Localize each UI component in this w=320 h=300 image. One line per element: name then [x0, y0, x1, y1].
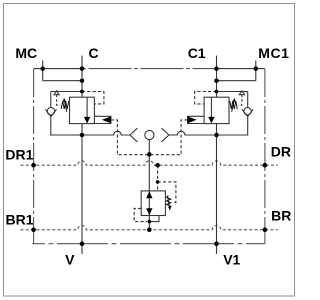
RV1 outlet step — [149, 216, 159, 222]
svg-text:DR: DR — [271, 143, 291, 159]
CB2 vent triangle — [239, 91, 244, 95]
shuttle valve SH1 ball — [145, 130, 154, 139]
wire: right drain gallery vertical dash-dot — [264, 69, 266, 244]
wire: left drain gallery vertical dash-dot — [33, 69, 35, 244]
RV1 down arrow — [146, 208, 152, 215]
CB1 vent dashed line — [57, 95, 61, 106]
junction BR port node — [263, 228, 268, 233]
junction C / top line — [80, 66, 85, 71]
junction C1 / top line — [214, 66, 219, 71]
wire: top line MC1 to C1 — [217, 68, 265, 70]
CB2 pilot piston arrow — [188, 116, 197, 123]
wire: drain line DR1-DR dashed with crossover humps — [20, 161, 277, 165]
RV1 pilot dashed branch to spring — [158, 182, 176, 202]
junction BR1 port node — [31, 228, 36, 233]
junction RV1 outlet — [148, 220, 152, 224]
wire: MC port stub — [42, 61, 44, 81]
CB2 spring — [230, 101, 238, 109]
CB1 pilot piston box — [94, 116, 111, 123]
shuttle valve SH1 left seat — [130, 128, 137, 142]
check valve CV2 ball — [244, 108, 251, 115]
wire: C1 node to check valve CV2 top — [217, 91, 248, 93]
junction V1 port node — [214, 241, 219, 246]
counterbalance valve CB1 body — [70, 97, 95, 123]
check valve CV2 seat — [242, 109, 253, 116]
check valve CV2 inlet line — [247, 92, 249, 108]
junction RV1 pilot branch — [156, 180, 160, 184]
wire: C1 line upper — [216, 56, 218, 98]
CB2 vent dashed line — [238, 95, 242, 106]
CB2 spring adjustment arrow — [232, 102, 234, 112]
junction C1 / MC1 connector — [214, 78, 219, 83]
junction MC / top line — [40, 66, 45, 71]
svg-text:V1: V1 — [223, 252, 240, 268]
wire: V line lower with port stub — [81, 124, 83, 254]
junction DR line / RV1 pilot — [155, 163, 160, 168]
CB2 internal pilot dashed from C1 — [195, 92, 217, 104]
wire: manifold boundary dash-dot bottom V gallery — [32, 243, 265, 245]
CB2 pilot piston box — [188, 116, 205, 123]
svg-text:V: V — [65, 251, 75, 267]
RV1 pilot dashed from DR line — [157, 165, 159, 191]
svg-text:MC: MC — [15, 45, 37, 61]
check valve CV2 outlet line — [217, 117, 248, 135]
relief valve RV1 body — [141, 191, 165, 216]
CB1 internal pilot dashed from C — [82, 92, 104, 104]
CB1 pilot piston arrow — [102, 116, 111, 123]
junction C1 / pilot tap — [215, 90, 219, 94]
CB1 spring — [61, 101, 68, 109]
svg-text:BR: BR — [271, 207, 291, 223]
junction RV1 outlet / BR line — [147, 228, 152, 233]
junction V line / CV1 outlet — [80, 133, 85, 138]
RV1 spring — [167, 196, 171, 208]
CB2 remote pilot dashed to shuttle node — [149, 120, 187, 155]
CB2 flow arrow — [210, 97, 212, 117]
wire: CB1 outlet to shuttle with crossover hump — [82, 131, 130, 135]
wire: manifold boundary dash-dot top segment C to C1 — [82, 68, 217, 70]
svg-text:BR1: BR1 — [6, 211, 34, 227]
svg-text:MC1: MC1 — [258, 45, 289, 61]
shuttle valve SH1 right seat — [162, 128, 169, 142]
CB1 flow arrow — [86, 97, 88, 117]
check valve CV1 inlet line — [50, 92, 52, 108]
CB1 spring adjustment arrow — [65, 102, 67, 112]
junction V1 line / CV2 outlet — [214, 133, 219, 138]
wire: V1 line lower with port stub — [216, 124, 218, 254]
svg-text:C: C — [89, 45, 99, 61]
wire: MC to C connector — [43, 80, 82, 82]
check valve CV1 outlet line — [51, 117, 82, 135]
check valve CV1 seat — [45, 109, 56, 116]
svg-text:DR1: DR1 — [5, 147, 33, 163]
wire: MC1 to C1 connector — [217, 80, 256, 82]
CB1 vent triangle — [54, 91, 59, 95]
wire: shuttle output down to relief valve RV1 — [148, 140, 150, 230]
RV1 dashed drain loop — [134, 208, 147, 221]
junction MC1 / top line — [254, 66, 258, 71]
junction C / pilot tap — [80, 90, 84, 94]
junction C / MC connector — [80, 78, 85, 83]
junction V port node — [80, 241, 85, 246]
junction shuttle node / pilot lines — [147, 152, 152, 157]
junction DR port node — [263, 163, 268, 168]
wire: top line MC to C — [34, 68, 82, 70]
svg-text:C1: C1 — [188, 45, 206, 61]
wire: MC1 port stub — [255, 61, 257, 81]
counterbalance valve CB2 body — [204, 97, 229, 123]
check valve CV1 ball — [47, 108, 54, 115]
RV1 spring adjustment arrow — [167, 196, 169, 207]
junction DR1 port node — [31, 163, 36, 168]
wire: CB2 outlet to shuttle with crossover hump — [169, 131, 217, 135]
wire: C line upper — [81, 56, 83, 98]
wire: drain line BR1-BR dashed with crossover humps — [20, 226, 277, 230]
wire: C node to check valve CV1 top — [51, 91, 82, 93]
RV1 up arrow — [146, 191, 152, 198]
CB1 remote pilot dashed to shuttle node — [111, 120, 149, 155]
